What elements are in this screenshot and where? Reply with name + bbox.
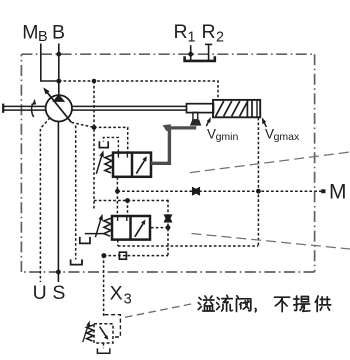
port line B bbox=[58, 44, 60, 96]
pump outlet double line to piston bbox=[72, 106, 187, 110]
svg-text:2: 2 bbox=[216, 30, 224, 46]
note text: 溢流阀，不提供 (drawn strokes) bbox=[198, 295, 330, 312]
orifice on M line bbox=[193, 188, 200, 195]
relief valve internal arrow bbox=[100, 327, 109, 340]
label Vgmax bbox=[265, 127, 300, 144]
shaft rotation arrow bbox=[32, 99, 37, 117]
pilot riser x=94 (dashed) bbox=[93, 81, 95, 211]
label R2 bbox=[202, 21, 225, 46]
pilot branch y=200.5 (dashed) bbox=[94, 201, 168, 216]
enclosure border (dash-dot frame) bbox=[21, 54, 314, 272]
valve U2 closed-position port stubs bbox=[118, 217, 127, 221]
junction dot B at border bbox=[56, 52, 61, 57]
svg-text:B: B bbox=[38, 29, 48, 45]
feedback lever (gray linkage) bbox=[151, 127, 196, 165]
valve U1 pilot drain hook (dashed) bbox=[104, 137, 119, 152]
label M bbox=[329, 181, 347, 204]
relief valve adjust arrow bbox=[83, 321, 90, 343]
junction dot x94 feedback bbox=[92, 125, 97, 130]
svg-text:1: 1 bbox=[188, 30, 196, 46]
M gauge line (dashed) bbox=[117, 190, 321, 192]
cylinder piston face bbox=[247, 101, 257, 117]
lever base foot bbox=[190, 120, 201, 126]
提 bbox=[294, 296, 310, 311]
junction dot R1 at border bbox=[188, 52, 193, 57]
pump case drain to tank (dashed) bbox=[75, 126, 77, 260]
svg-text:M: M bbox=[22, 21, 38, 43]
plug bracket R1 R2 bbox=[185, 56, 215, 61]
relief valve tank bbox=[97, 348, 109, 353]
junction dot S at border bbox=[56, 270, 61, 275]
X3 pilot port line (dashed) bbox=[103, 256, 105, 317]
label R1 bbox=[174, 21, 196, 46]
port line R2 with top tick bbox=[205, 44, 212, 60]
valve U2 (flow control) body bbox=[112, 216, 150, 240]
svg-text:3: 3 bbox=[124, 291, 132, 307]
junction dot pilot x94 bbox=[92, 79, 97, 84]
valve U2 output line (dashed) bbox=[151, 227, 168, 229]
label U bbox=[33, 282, 47, 304]
pilot line cylinder to M (dashed) bbox=[257, 118, 259, 246]
junction dot U2 output bbox=[166, 225, 171, 230]
svg-text:S: S bbox=[52, 282, 65, 304]
valve U1 spring bbox=[105, 155, 113, 173]
junction dot MB-B bbox=[56, 79, 61, 84]
lever post bbox=[193, 112, 198, 119]
junction dot X3 branch bbox=[101, 253, 106, 258]
svg-text:X: X bbox=[110, 283, 123, 305]
stroking cylinder barrel bbox=[213, 100, 260, 117]
label X3 bbox=[110, 283, 132, 308]
intervalve riser x=117.4 (dashed) bbox=[116, 177, 118, 216]
lever pivot wedge bbox=[163, 124, 171, 131]
valve U1 (pressure control) body bbox=[113, 153, 151, 177]
valve U2 spring bbox=[104, 218, 112, 236]
label S bbox=[52, 282, 65, 304]
drive shaft bbox=[3, 104, 46, 113]
relief valve spring bbox=[87, 325, 94, 341]
feedback bottom line y=246 (dashed) bbox=[118, 240, 259, 246]
port line R1 bbox=[190, 45, 192, 60]
label Vgmin bbox=[207, 127, 239, 144]
svg-text:R: R bbox=[202, 21, 216, 43]
M port square bbox=[321, 189, 325, 193]
suction line S bbox=[57, 122, 59, 283]
pilot line from B (dashed) bbox=[59, 81, 218, 100]
orifice on riser x=168 bbox=[165, 215, 172, 222]
valve U1 closed-position port stubs bbox=[118, 154, 127, 158]
svg-text:gmin: gmin bbox=[216, 131, 239, 143]
leader line to note bbox=[125, 303, 195, 317]
case drain to U (dashed) bbox=[40, 118, 50, 282]
comma bbox=[254, 309, 257, 312]
Vgmax limit arrow bbox=[262, 118, 266, 128]
valve U1 flow-path arrow bbox=[136, 156, 147, 173]
svg-text:M: M bbox=[329, 181, 347, 204]
tank cup under case drain bbox=[71, 259, 82, 264]
relief valve body bbox=[94, 324, 113, 343]
阀 bbox=[237, 296, 251, 312]
Vgmin limit arrow bbox=[206, 117, 211, 126]
port line MB bbox=[41, 44, 59, 82]
cylinder spring coils bbox=[216, 101, 248, 116]
leader line lower bbox=[192, 234, 350, 250]
不 bbox=[275, 297, 290, 311]
svg-text:gmax: gmax bbox=[274, 131, 300, 143]
svg-text:U: U bbox=[33, 282, 47, 304]
流 bbox=[217, 295, 233, 311]
valve U2 spring drain line bbox=[85, 233, 105, 235]
pump variable arrow bbox=[43, 87, 71, 122]
orifice box on X3 branch bbox=[119, 252, 126, 259]
svg-text:R: R bbox=[174, 21, 188, 43]
junction dot pilot branch bbox=[125, 198, 130, 203]
valve U2 flow-path arrow bbox=[135, 220, 146, 237]
溢 bbox=[198, 296, 214, 311]
label B bbox=[52, 21, 65, 43]
label MB bbox=[22, 21, 47, 45]
junction dot M line right bbox=[256, 189, 261, 194]
valve U1 adjust arrow bbox=[96, 150, 104, 174]
feedback loop riser x=168 (dashed) bbox=[167, 200, 169, 256]
tank cup for U1 hook bbox=[99, 141, 108, 147]
svg-text:B: B bbox=[52, 21, 65, 43]
pump flow triangle (to B) bbox=[52, 94, 65, 102]
valve U2 adjust arrow bbox=[95, 214, 103, 238]
tank cup for U2 drain bbox=[80, 237, 90, 244]
swashplate feedback dashes bbox=[72, 122, 128, 152]
relief valve (not supplied) frame bbox=[105, 315, 121, 337]
X3 branch line y=255.6 (dashed) bbox=[104, 255, 168, 257]
junction dot M line left bbox=[115, 189, 120, 194]
供 bbox=[315, 296, 330, 312]
stroking piston plunger bbox=[187, 104, 214, 113]
relief valve drain stub bbox=[103, 343, 105, 348]
pump P (variable displacement) circle bbox=[46, 95, 72, 121]
leader line upper bbox=[190, 152, 350, 173]
